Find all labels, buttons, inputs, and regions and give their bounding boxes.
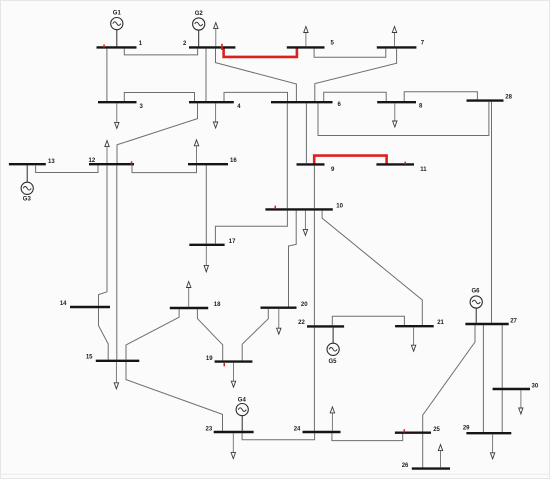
svg-text:22: 22 [298, 320, 305, 326]
wire 19-20 [242, 309, 268, 361]
svg-text:26: 26 [402, 463, 409, 469]
svg-text:23: 23 [206, 427, 213, 433]
wire 2-6 [216, 49, 297, 101]
load arrow bus 26 (up) [438, 445, 442, 468]
svg-text:17: 17 [229, 239, 236, 245]
red tick bus 11 [405, 162, 407, 165]
red tick bus 25 [404, 429, 406, 432]
svg-text:12: 12 [89, 158, 96, 164]
load arrow bus 18 (up) [187, 282, 191, 307]
wire 8-28 [404, 92, 477, 101]
svg-text:14: 14 [60, 301, 67, 307]
svg-text:10: 10 [336, 203, 343, 209]
wire 4-6 [224, 92, 288, 101]
wire 10-17 [215, 211, 287, 244]
wire 24-25 [332, 432, 403, 441]
wire 3-4 [124, 93, 194, 102]
bus 13 [9, 163, 46, 165]
red tick bus 2 [221, 44, 223, 50]
load arrow bus 7 (up) [392, 27, 396, 47]
bus 17 [189, 244, 224, 246]
wire 14-15 [99, 308, 109, 359]
bus 2 [189, 46, 235, 48]
load arrow bus 20 (down) [277, 309, 281, 334]
load arrow bus 23 (down) [231, 433, 235, 458]
load arrow bus 10 (down) [303, 211, 307, 236]
wire 15-18 [126, 309, 179, 359]
load arrow bus 16 (up) [194, 140, 198, 163]
wire 22-24 [313, 328, 315, 431]
load arrow bus 2 (up) [214, 23, 218, 47]
svg-text:30: 30 [532, 383, 539, 389]
wire 6-28 [318, 102, 489, 136]
bus 18 [170, 307, 208, 309]
bus 22 [307, 325, 344, 327]
wire 27-29 [482, 325, 484, 432]
bus 3 [98, 101, 137, 103]
svg-text:G6: G6 [471, 289, 480, 295]
wire 1-3 [106, 49, 108, 101]
load arrow bus 12 (up) [105, 141, 109, 163]
bus 4 [189, 101, 234, 103]
svg-text:G1: G1 [113, 10, 122, 16]
red tick bus 1 [103, 44, 105, 47]
wire 10-20 [289, 211, 297, 307]
bus 11 [376, 163, 414, 165]
generator G3 [21, 165, 33, 194]
svg-text:18: 18 [214, 302, 221, 308]
wire 9-10 [313, 166, 315, 209]
load arrow bus 19 (down) [231, 363, 235, 387]
load arrow bus 21 (down) [411, 327, 415, 351]
wire 2-4 [205, 49, 207, 101]
wire 25-26 [422, 434, 424, 468]
bus 23 [214, 431, 254, 433]
wire 2-5 (highlighted red) [224, 48, 297, 57]
bus 26 [412, 467, 450, 469]
wire 12-16 [132, 165, 197, 172]
wire 13-12 [36, 165, 98, 172]
svg-text:G4: G4 [238, 397, 247, 403]
svg-text:G2: G2 [195, 11, 204, 17]
svg-text:11: 11 [420, 167, 427, 173]
generator G6 [470, 296, 482, 323]
wire 29-30 [501, 390, 503, 432]
load arrow bus 17 (down) [204, 246, 208, 272]
wire 6-9 [305, 103, 307, 163]
red tick bus 12 [131, 161, 133, 164]
wire 21-22 [332, 316, 404, 325]
bus 30 [493, 388, 530, 390]
bus 1 [97, 46, 137, 48]
bus 21 [395, 325, 434, 327]
bus 12 [89, 163, 134, 165]
svg-text:25: 25 [433, 427, 440, 433]
red tick bus 19 [224, 363, 226, 366]
load arrow bus 3 (down) [115, 103, 119, 128]
bus 9 [297, 163, 325, 165]
svg-text:20: 20 [301, 302, 308, 308]
generator G2 [193, 18, 205, 47]
load arrow bus 24 (up) [330, 407, 334, 431]
generator G4 [236, 404, 248, 431]
wire 5-7 [314, 49, 386, 58]
wire 23-24 [242, 433, 315, 440]
wire 6-10 [286, 103, 288, 208]
bus 20 [261, 307, 297, 309]
bus 28 [467, 99, 504, 101]
wire 4-12 [117, 103, 198, 163]
svg-text:29: 29 [463, 426, 470, 432]
svg-text:28: 28 [505, 95, 512, 101]
bus 19 [215, 360, 253, 362]
wire 18-19 [197, 309, 222, 360]
wire 6-8 [324, 92, 387, 101]
wire 6-7 [315, 49, 397, 101]
bus 27 [465, 323, 508, 325]
svg-text:21: 21 [437, 320, 444, 326]
svg-text:19: 19 [206, 356, 213, 362]
wire 28-27 [491, 102, 493, 323]
wire 1-2 [124, 49, 197, 55]
load arrow bus 8 (down) [393, 103, 397, 127]
svg-text:G5: G5 [328, 359, 337, 365]
load arrow bus 15 (down) [114, 362, 118, 389]
generator G5 [327, 328, 339, 356]
wire 9-11 (highlighted red) [314, 156, 386, 164]
svg-text:24: 24 [294, 427, 301, 433]
wire 27-30 [501, 325, 503, 388]
bus 5 [287, 46, 325, 48]
bus 10 [265, 208, 332, 210]
bus 29 [466, 432, 511, 434]
svg-text:15: 15 [86, 355, 93, 361]
bus 7 [377, 46, 417, 48]
bus 6 [271, 101, 333, 103]
bus 16 [188, 163, 228, 165]
wire 16-17 [205, 165, 207, 243]
load arrow bus 29 (down) [490, 434, 494, 458]
bus 14 [70, 306, 110, 308]
wire 10-22 [313, 211, 315, 326]
wire 12-15 [116, 165, 118, 359]
wire 15-23 [126, 362, 223, 431]
bus 25 [395, 432, 431, 434]
wire 25-27 [423, 325, 475, 431]
wire 10-21 [322, 211, 422, 325]
red tick bus 10 [275, 206, 277, 209]
bus 24 [303, 431, 341, 433]
load arrow bus 4 (down) [213, 103, 217, 128]
svg-text:27: 27 [510, 319, 517, 325]
svg-text:16: 16 [230, 158, 237, 164]
load arrow bus 30 (down) [519, 390, 523, 414]
bus 8 [377, 101, 416, 103]
load arrow bus 5 (up) [304, 27, 308, 47]
generator G1 [111, 18, 123, 47]
bus 15 [96, 360, 140, 362]
svg-text:13: 13 [48, 159, 55, 165]
wire 12-14 [99, 165, 108, 305]
svg-text:G3: G3 [23, 197, 32, 203]
